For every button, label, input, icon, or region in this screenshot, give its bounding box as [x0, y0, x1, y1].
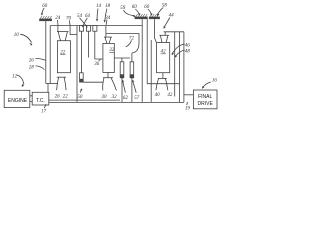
second bus line [49, 99, 120, 101]
label 10 [14, 33, 19, 38]
svg-text:22: 22 [63, 95, 68, 100]
svg-text:50: 50 [77, 95, 83, 100]
svg-text:59: 59 [120, 6, 126, 11]
member 48 wire [178, 32, 180, 103]
wire: K2 descender (member 36) [87, 31, 89, 57]
svg-text:14: 14 [96, 4, 102, 9]
label 16 + leader [212, 78, 218, 83]
svg-text:36: 36 [94, 62, 100, 67]
brake 60/58 hatched bar (right) [149, 14, 160, 19]
second shaft line 72 [106, 32, 139, 34]
wire: mid vertical to bus [150, 40, 152, 102]
wires: clutches to bus [121, 78, 123, 103]
gearset B input step + fork [105, 26, 107, 37]
FINAL DRIVE box [193, 90, 217, 109]
member 46 wire [174, 32, 176, 97]
shaft V2 [49, 26, 51, 84]
svg-text:30: 30 [102, 95, 108, 100]
label 72 + arc leader [129, 36, 135, 41]
svg-text:60: 60 [144, 5, 150, 10]
planetary gearset box 42 [157, 43, 170, 73]
label 19 + leader [185, 107, 191, 112]
gearset A input fork [57, 26, 59, 32]
label 26 + leader [29, 59, 35, 64]
brake wire right into gearset C [154, 19, 156, 42]
main input shaft line [50, 25, 142, 27]
brake wire left to bus [141, 19, 143, 102]
label 12 [12, 75, 18, 80]
gearset B output fork + labels 30 32 [107, 73, 109, 78]
torque converter T.C. box [32, 92, 49, 105]
svg-text:70: 70 [66, 16, 72, 21]
label 50 + leader [77, 95, 83, 100]
svg-text:DRIVE: DRIVE [198, 101, 214, 107]
leader for 60 [42, 8, 45, 15]
svg-text:FINAL: FINAL [198, 94, 212, 100]
svg-text:40: 40 [155, 93, 161, 98]
shaft above gearset C [164, 32, 184, 36]
ENGINE box [4, 90, 30, 107]
clutch rail from gearset B [114, 57, 130, 59]
wire: into T.C. top [47, 84, 49, 93]
label 44 + leader [169, 14, 175, 19]
wire: shaft 70 jog to clutch column [70, 26, 77, 35]
clutch 57 element [130, 62, 134, 78]
wire: lower rail from K1 to gearset B fork [83, 81, 103, 83]
label 54 + leader [77, 14, 83, 19]
gearset C input bar + fork [159, 34, 169, 36]
clutch K3 [93, 26, 97, 32]
planetary gearset box 22 [57, 41, 70, 73]
brake 59/60 hatched bar (mid) [135, 14, 148, 19]
brake 60 hatched bar (left) [39, 16, 52, 21]
clutch 50 element [80, 73, 84, 82]
svg-text:60: 60 [42, 4, 48, 9]
label 34 + tick [105, 16, 111, 21]
svg-text:19: 19 [185, 107, 191, 112]
svg-text:48: 48 [185, 50, 191, 55]
svg-text:32: 32 [112, 95, 118, 100]
wire: K3 descender into gearset B [95, 31, 103, 59]
label 18 + leader [105, 4, 111, 9]
svg-text:18: 18 [105, 4, 111, 9]
main bus line [49, 101, 184, 103]
wire into final drive [184, 94, 194, 96]
label 60 (mid) + leader [132, 5, 138, 10]
wire: K1 descender [80, 31, 82, 73]
label 64 + leader [85, 14, 91, 19]
label 46 + leader [185, 44, 191, 49]
label 36 + dash [94, 62, 100, 67]
svg-text:46: 46 [185, 44, 191, 49]
wire: rail to clutch 62 [121, 58, 123, 62]
label 17 + leader [41, 110, 47, 115]
label 60 top-left [42, 4, 48, 9]
label 22 (bottom) [63, 95, 68, 100]
label 48 + leader [185, 50, 191, 55]
label 59 + leader [120, 6, 126, 11]
label 24 + tick [55, 16, 61, 21]
label 28 + leader [29, 66, 35, 71]
clutch K1 [79, 26, 83, 32]
long shaft V3 [76, 26, 78, 102]
label 60 (right) + leader [144, 5, 150, 10]
svg-text:26: 26 [29, 59, 35, 64]
svg-text:24: 24 [55, 16, 61, 21]
svg-text:62: 62 [123, 96, 128, 101]
wire: main line end down to output rail [146, 19, 148, 84]
svg-text:16: 16 [212, 78, 218, 83]
wire: line 72 end down + arc to clutch 57 [138, 33, 140, 43]
svg-text:ENGINE: ENGINE [8, 98, 28, 104]
clutch K2 [86, 26, 90, 32]
leader arrow for 10 [20, 34, 31, 42]
svg-text:T.C.: T.C. [36, 98, 45, 104]
leader arrow for 12 [17, 75, 24, 85]
planetary gearset box 32 [103, 43, 114, 72]
label 57 + leader [134, 96, 140, 101]
svg-text:10: 10 [14, 33, 19, 38]
gearset C output fork + labels 40 42 [162, 73, 164, 79]
svg-text:34: 34 [105, 16, 111, 21]
svg-text:60: 60 [132, 5, 138, 10]
wire: right shaft down to final drive [183, 32, 185, 103]
svg-text:17: 17 [41, 110, 47, 115]
label 14 + leader [96, 4, 102, 9]
label 70 + tick [66, 16, 72, 21]
svg-text:28: 28 [29, 66, 35, 71]
output rail [147, 83, 179, 85]
label 26 (bottom) [55, 95, 61, 100]
svg-text:42: 42 [167, 93, 173, 98]
label 58 + leader [162, 4, 168, 9]
svg-text:64: 64 [85, 14, 91, 19]
label 62 + leader [123, 96, 128, 101]
gearset A output fork [57, 76, 66, 78]
shaft V1 [45, 21, 47, 83]
svg-text:57: 57 [134, 96, 140, 101]
svg-text:26: 26 [55, 95, 61, 100]
wire: V1 bottom to gearset A fork [46, 83, 58, 85]
svg-text:12: 12 [12, 75, 18, 80]
clutch 62 element [120, 62, 124, 78]
